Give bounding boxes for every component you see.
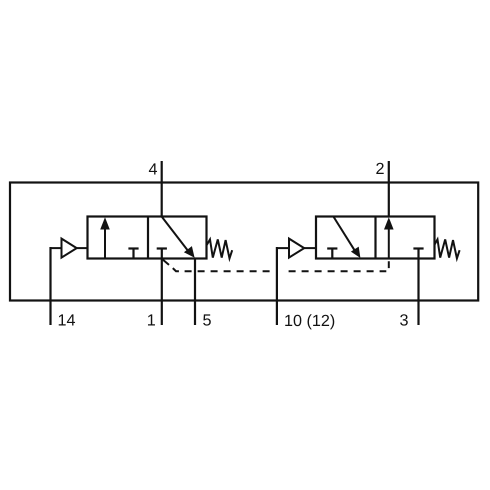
svg-text:4: 4 xyxy=(148,161,157,179)
svg-text:3: 3 xyxy=(400,312,409,330)
svg-text:5: 5 xyxy=(203,312,212,330)
valve V1 diagonal flow arrow 4->5 xyxy=(162,217,195,258)
valve V2 blocked port T (right cell, port 3) xyxy=(413,247,423,249)
wire: port 1 vertical xyxy=(161,249,163,326)
enclosure (sub-base) rectangle xyxy=(10,183,478,301)
svg-text:14: 14 xyxy=(58,312,76,330)
wire: port 5 vertical xyxy=(194,259,196,326)
wire: port 4 line xyxy=(161,161,163,217)
valve V2 diagonal flow arrow xyxy=(334,217,361,258)
valve V2 body xyxy=(316,217,435,259)
valve V1 flow arrow up (left cell) xyxy=(100,217,110,258)
valve V1 pilot triangle xyxy=(62,239,77,258)
valve V1 body xyxy=(88,217,207,259)
valve V1 cell divider xyxy=(147,217,149,259)
svg-text:2: 2 xyxy=(375,160,384,178)
wire: port 10(12) horizontal xyxy=(277,247,289,249)
svg-text:1: 1 xyxy=(147,312,156,330)
valve V1 return spring xyxy=(207,239,232,258)
wire: port 3 vertical xyxy=(417,249,419,326)
valve V2 pilot triangle xyxy=(289,239,304,258)
wire: port 14 vertical xyxy=(49,247,51,325)
valve V1 blocked port T (right cell, port 1) xyxy=(157,247,167,249)
pilot signal dashed line V1 port1 to V2 xyxy=(162,259,389,272)
wire: port 14 horizontal xyxy=(51,247,62,249)
valve V2 flow arrow up (right cell) xyxy=(384,217,394,258)
svg-text:10 (12): 10 (12) xyxy=(284,312,335,330)
valve V2 return spring xyxy=(434,239,459,258)
valve V2 cell divider xyxy=(374,217,376,259)
wire: pilot apex to V1 body xyxy=(77,247,88,249)
wire: port 10(12) vertical xyxy=(276,247,278,325)
valve V2 blocked port T (left cell) xyxy=(327,249,337,259)
wire: port 2 line xyxy=(388,161,390,217)
wire: pilot apex to V2 body xyxy=(304,247,316,249)
valve V1 blocked port T (left cell) xyxy=(128,249,138,259)
